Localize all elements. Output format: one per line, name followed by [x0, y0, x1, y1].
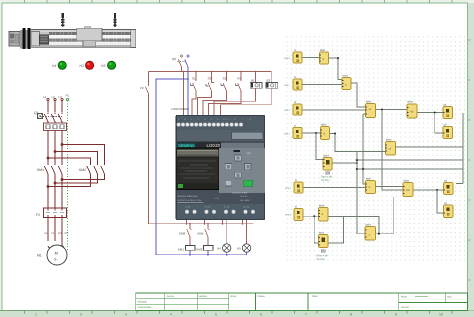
- wire I2 to B002: [302, 84, 342, 86]
- block B002: [342, 75, 351, 90]
- title block right divider: [399, 301, 468, 303]
- svg-text:V1: V1: [51, 232, 55, 235]
- svg-text:VE0.0: VE0.0: [284, 57, 291, 60]
- svg-text:&: &: [324, 133, 326, 136]
- PLC top terminal band: [177, 116, 264, 129]
- svg-text:L N 1 2 3 4 5 6 7: L N 1 2 3 4 5 6 7: [178, 118, 234, 121]
- node B004 out: [434, 112, 436, 114]
- svg-text:VE0.2: VE0.2: [284, 109, 291, 112]
- block B004: [407, 101, 417, 119]
- wire B010 out: [376, 197, 394, 234]
- svg-text:B011: B011: [319, 232, 325, 235]
- node N-KM1: [189, 254, 191, 256]
- svg-text:4L Q4: 4L Q4: [244, 206, 250, 209]
- wire B011 out: [328, 217, 344, 243]
- input block I2: [284, 76, 302, 90]
- svg-text:10: 10: [439, 313, 443, 317]
- proximity sensor B1: [250, 72, 262, 89]
- output block Q1: [443, 104, 453, 119]
- node B003 out: [381, 109, 383, 111]
- svg-text:B1: B1: [251, 79, 255, 83]
- wire B008 to Q3: [413, 189, 444, 191]
- FBD blocks: [284, 49, 453, 261]
- wire B003 branch down to B008: [382, 110, 403, 191]
- svg-text:H3: H3: [101, 64, 105, 68]
- title block texts: [138, 295, 453, 309]
- svg-text:3: 3: [125, 313, 127, 317]
- svg-text:B003: B003: [366, 101, 372, 104]
- wire B007 to B008: [376, 186, 404, 188]
- node phase3 to KM2 branch: [61, 144, 105, 163]
- wire left rail down: [148, 72, 150, 86]
- block B003: [366, 101, 376, 118]
- PLC input terminals: [177, 123, 243, 127]
- plano number line: [415, 296, 428, 298]
- linear actuator connector: [9, 32, 20, 47]
- contactor KM1: [37, 162, 62, 176]
- pushbutton S3: [221, 72, 227, 95]
- motor terminals U1 V1 W1: [44, 232, 68, 235]
- node bus-S4: [240, 71, 242, 73]
- breaker thermal-magnetic box: [44, 123, 67, 131]
- node bus-PLC-L: [183, 71, 185, 73]
- svg-text:RS: RS: [410, 111, 414, 114]
- output block Q2: [443, 124, 453, 139]
- overload aux contact F2: [140, 85, 149, 95]
- wire phase1 breaker to KM1: [47, 131, 49, 163]
- svg-text:1L Q1: 1L Q1: [185, 206, 191, 209]
- bottom margin band: [0, 311, 474, 317]
- node rail-Q4L: [242, 223, 244, 225]
- node bus-S3: [226, 71, 228, 73]
- wire B005 out: [330, 134, 386, 152]
- svg-text:L2: L2: [52, 95, 56, 99]
- PLC U1 body: [176, 115, 265, 220]
- block B012 (timer): [321, 155, 332, 183]
- svg-text:3L Q3: 3L Q3: [224, 206, 230, 209]
- top ruler ticks: [25, 0, 453, 3]
- interlock contact KM2 (NC) in KM1 branch: [179, 224, 192, 246]
- svg-text:6: 6: [260, 313, 262, 317]
- node bus-S2: [211, 71, 213, 73]
- wire KM2 pole3 return: [61, 176, 105, 181]
- wire phase3 KM1 to F2: [61, 176, 63, 209]
- wire Q3 common stub: [222, 220, 224, 224]
- node phase2 to KM2 branch: [54, 151, 98, 163]
- svg-text:04:00s+: 04:00s+: [317, 258, 327, 261]
- wire branch to Q2: [435, 113, 443, 134]
- wire L1 drop to breaker: [47, 101, 49, 112]
- pushbutton S4: [236, 72, 242, 95]
- wire B003 to B004: [376, 109, 408, 111]
- input block I5: [285, 179, 303, 193]
- svg-text:M1: M1: [37, 254, 42, 258]
- neutral bus bottom (blue): [156, 254, 247, 256]
- contactor KM2: [79, 162, 105, 176]
- node rail-KM1: [189, 223, 191, 225]
- output common rail: [149, 223, 254, 225]
- bottom ruler ticks: [25, 311, 453, 314]
- svg-text:H2: H2: [80, 64, 84, 68]
- svg-text:W1: W1: [58, 232, 62, 235]
- svg-text:KM2: KM2: [179, 232, 186, 236]
- svg-text:PE: PE: [65, 232, 69, 235]
- node B005 out: [334, 133, 336, 135]
- wire KM2 pole2 return: [54, 176, 98, 185]
- wire B001 out: [329, 58, 343, 80]
- block B001: [320, 49, 329, 64]
- svg-text:B008: B008: [404, 180, 410, 183]
- svg-text:S3: S3: [223, 77, 227, 81]
- svg-text:8: 8: [350, 313, 352, 317]
- PLC keypad panel: [219, 148, 265, 194]
- control bus L: [149, 71, 272, 73]
- svg-text:B006: B006: [386, 139, 392, 142]
- wire trunk vertical B to B003: [363, 114, 365, 184]
- wire I4 branch to B012: [316, 133, 323, 160]
- wire phase2 KM1 to F2: [54, 176, 56, 209]
- wire B2 to I6: [221, 88, 272, 115]
- svg-text:5: 5: [215, 313, 217, 317]
- wire phase3 breaker to KM1: [61, 131, 63, 163]
- svg-text:PE: PE: [66, 94, 70, 98]
- PLC bottom terminal band: [177, 204, 264, 219]
- output block Q4: [444, 202, 454, 218]
- node trunk-169b: [362, 168, 364, 170]
- node rail-KM2: [207, 223, 209, 225]
- wire B002 to B003: [351, 83, 366, 107]
- thermal overload relay F2: [36, 208, 67, 218]
- node bus-S1: [195, 71, 197, 73]
- wire I5 to B007: [303, 187, 366, 189]
- wire I6 branch to B011: [314, 216, 318, 243]
- svg-text:B2: B2: [267, 79, 271, 83]
- pushbutton S2 (NC): [206, 72, 214, 95]
- LCD display: [177, 148, 219, 190]
- svg-text:Archivo: Archivo: [401, 306, 410, 309]
- svg-text:OUTPUT 4 x RELAY / 10A: OUTPUT 4 x RELAY / 10A: [178, 199, 202, 202]
- input block I1: [284, 49, 302, 63]
- svg-text:Enlace: Enlace: [258, 295, 266, 298]
- node B010 out: [378, 233, 380, 235]
- svg-text:&: &: [323, 58, 325, 61]
- svg-text:B004: B004: [408, 101, 414, 104]
- wire Q1 common stub: [186, 220, 188, 224]
- svg-text:H5: H5: [237, 247, 241, 251]
- node rail-Q3L: [222, 223, 224, 225]
- wire trunk vertical A: [357, 152, 365, 234]
- white channel upper: [49, 35, 131, 39]
- svg-text:LOGO!: LOGO!: [207, 143, 221, 148]
- wire B006 out feedback: [396, 113, 463, 184]
- title block frame: [136, 293, 468, 311]
- svg-text:S4: S4: [237, 77, 241, 81]
- svg-text:3~: 3~: [54, 258, 58, 262]
- wire B009 out: [328, 216, 379, 233]
- svg-text:B005: B005: [321, 124, 327, 127]
- svg-text:B007: B007: [366, 178, 372, 181]
- lead screw thread upper: [49, 32, 131, 35]
- wire I3 to B003: [302, 109, 366, 111]
- SIEMENS logo: [177, 143, 195, 148]
- OK button: [244, 180, 253, 186]
- wire Q2 common stub: [204, 220, 206, 224]
- svg-text:Comprobado: Comprobado: [138, 306, 152, 309]
- output block Q3: [444, 180, 454, 195]
- svg-text:B010: B010: [366, 224, 372, 227]
- svg-text:B012: B012: [324, 155, 330, 158]
- node rail-Q2L: [204, 223, 206, 225]
- svg-text:VE0.1: VE0.1: [284, 84, 291, 87]
- wire long line upper: [357, 159, 463, 161]
- svg-text:F2: F2: [36, 213, 40, 217]
- block B006: [386, 139, 396, 156]
- svg-text:L3: L3: [59, 95, 63, 99]
- svg-text:Título: Título: [312, 295, 319, 298]
- wire I6 to B009: [304, 215, 319, 217]
- node trunk-160: [356, 159, 358, 161]
- svg-text:L1: L1: [43, 95, 47, 99]
- svg-text:VE0.4: VE0.4: [285, 187, 292, 190]
- svg-text:&: &: [345, 84, 347, 87]
- svg-text:1: 1: [35, 313, 37, 317]
- PLC upper face strip: [177, 129, 264, 148]
- svg-text:H4: H4: [217, 247, 221, 251]
- wire I4 to B005: [302, 132, 321, 134]
- node N-KM2: [207, 254, 209, 256]
- wire branch to Q4: [437, 190, 444, 213]
- svg-text:S1: S1: [192, 77, 196, 81]
- wire phase1 KM1 to F2: [47, 176, 49, 209]
- white channel lower: [49, 42, 131, 45]
- wire KM2 pole1 return: [47, 176, 91, 188]
- wire phase1 F2 to motor: [47, 218, 49, 242]
- wire I1 to B001: [302, 57, 320, 59]
- block B011 (timer): [317, 232, 329, 262]
- wire L3 drop to breaker: [61, 101, 63, 112]
- svg-text:B002: B002: [343, 75, 349, 78]
- svg-text:115...240V: 115...240V: [240, 199, 250, 202]
- svg-text:RS: RS: [406, 189, 410, 192]
- svg-text:LOGO!230RC: LOGO!230RC: [172, 107, 190, 111]
- motor M1: [37, 245, 67, 265]
- linear actuator motor coupling: [20, 28, 31, 49]
- svg-text:9: 9: [395, 313, 397, 317]
- block B005: [321, 124, 330, 140]
- proximity sensor B2: [266, 72, 278, 89]
- terminal PE: [66, 94, 70, 101]
- svg-text:2: 2: [80, 313, 82, 317]
- svg-text:S2: S2: [208, 77, 212, 81]
- node B008 out: [436, 189, 438, 191]
- wire left rail to bottom: [148, 95, 150, 224]
- svg-text:VE0.3: VE0.3: [284, 133, 291, 136]
- svg-text:KM2: KM2: [79, 168, 86, 172]
- wire PLC L drop: [183, 72, 185, 116]
- input block I3: [284, 101, 302, 115]
- svg-text:6ED1052-1FB08: 6ED1052-1FB08: [233, 191, 249, 194]
- circuit breaker Q1: [34, 111, 62, 123]
- main switch Q2 (2-pole): [172, 55, 189, 72]
- node trunk-169a: [356, 168, 358, 170]
- title block column lines: [164, 293, 445, 311]
- wire phase3 F2 to motor: [61, 218, 63, 246]
- actuator carriage: [77, 27, 102, 47]
- svg-text:SIEMENS: SIEMENS: [178, 143, 195, 148]
- node I6 branch: [313, 215, 315, 217]
- svg-text:2L Q2: 2L Q2: [205, 206, 211, 209]
- right margin band: [468, 3, 474, 311]
- wire B004 to Q1: [417, 112, 443, 114]
- svg-text:7: 7: [305, 313, 307, 317]
- wire S1 to I1: [192, 94, 196, 116]
- wire S4 to I4: [209, 94, 242, 116]
- bearing block: [40, 35, 49, 44]
- svg-text:04:00s+: 04:00s+: [321, 179, 331, 182]
- svg-text:Plano: Plano: [401, 296, 408, 299]
- svg-text:B001: B001: [320, 49, 326, 52]
- svg-text:F2: F2: [140, 86, 144, 90]
- svg-text:Dibujado: Dibujado: [138, 300, 148, 303]
- rail left end block: [31, 32, 39, 46]
- svg-text:Q2: Q2: [172, 57, 176, 61]
- linear actuator rail: [31, 29, 136, 47]
- svg-text:&: &: [369, 186, 371, 189]
- svg-text:KM1: KM1: [178, 248, 185, 252]
- node B001 out: [337, 57, 339, 59]
- node N-H4: [226, 254, 228, 256]
- input block I6: [285, 206, 303, 221]
- coil KM1: [178, 246, 195, 255]
- svg-text:VE0.5: VE0.5: [285, 214, 292, 217]
- PLC rating text: [178, 195, 251, 203]
- neutral from switch (blue): [156, 67, 189, 255]
- node rail-Q1L: [186, 223, 188, 225]
- pilot lamp H3 (green): [101, 61, 116, 69]
- PE conductor (green dashed): [65, 101, 68, 251]
- pilot lamp H1 (green): [52, 61, 66, 69]
- block B009: [319, 205, 329, 222]
- terminal L3: [59, 95, 64, 101]
- wire phase2 breaker to KM1: [54, 131, 56, 163]
- lamp H5: [237, 220, 251, 255]
- wire B1 to I5: [214, 88, 256, 115]
- block B010: [365, 224, 376, 241]
- block B008: [403, 180, 413, 197]
- svg-text:240: 240: [247, 152, 252, 155]
- lamp H4: [217, 220, 231, 255]
- wire S2 to I2: [198, 94, 212, 116]
- block B007: [366, 178, 376, 194]
- svg-text:L1 N AC: L1 N AC: [240, 195, 248, 198]
- svg-text:KM1: KM1: [37, 168, 44, 172]
- svg-text:H1: H1: [52, 64, 56, 68]
- interlock contact KM1 (NC) in KM2 branch: [198, 224, 211, 246]
- wire Q4 common stub: [242, 220, 244, 224]
- wire long line lower: [357, 168, 463, 170]
- svg-text:Firma: Firma: [230, 295, 237, 298]
- svg-text:B009: B009: [319, 205, 325, 208]
- node phase1 to KM2 branch: [47, 157, 91, 162]
- lead screw thread lower: [49, 39, 131, 42]
- wire B012 out: [332, 162, 357, 164]
- node bus-B1: [255, 71, 257, 73]
- svg-text:M: M: [55, 252, 58, 256]
- pushbutton S1: [191, 72, 197, 95]
- svg-text:5 6 7 8: 5 6 7 8: [227, 118, 254, 121]
- svg-text:6ED1052-1FB08-0BA1: 6ED1052-1FB08-0BA1: [178, 195, 199, 198]
- svg-text:&: &: [322, 213, 324, 216]
- wire phase2 F2 to motor: [54, 218, 56, 242]
- wire S3 to I3: [203, 94, 227, 116]
- terminal L2: [52, 95, 57, 101]
- svg-text:4: 4: [170, 313, 172, 317]
- svg-text:hoja: hoja: [447, 296, 452, 299]
- svg-text:Nombre: Nombre: [199, 295, 208, 298]
- input block I4: [284, 125, 302, 139]
- FBD editor grid dots: [283, 33, 468, 264]
- sensor screw B1: [61, 13, 64, 27]
- terminal L1: [43, 95, 49, 101]
- svg-text:KM1: KM1: [198, 232, 205, 236]
- node trunk-163: [356, 162, 358, 164]
- svg-text:U1: U1: [44, 232, 48, 235]
- pilot lamp H2 (red): [80, 61, 94, 69]
- actuator right end cap: [131, 30, 136, 48]
- svg-text:Fecha: Fecha: [167, 295, 174, 298]
- wire L2 drop to breaker: [54, 101, 56, 112]
- coil KM2: [196, 246, 213, 255]
- sensor screw B2: [113, 13, 116, 27]
- bottom zone numbers: [35, 313, 443, 317]
- node I4 branch: [315, 132, 317, 134]
- svg-text:KM2: KM2: [196, 248, 203, 252]
- title block row lines: [136, 299, 229, 305]
